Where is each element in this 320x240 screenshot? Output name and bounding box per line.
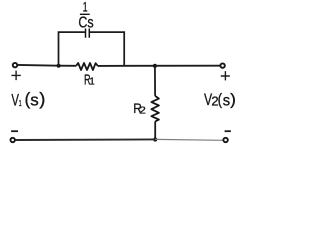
plus sign right <box>221 71 230 80</box>
terminal left bottom <box>11 138 15 142</box>
terminal right top <box>220 63 224 67</box>
node junction R2 top <box>153 64 157 68</box>
label V2(s) <box>204 91 236 110</box>
plus sign left <box>11 71 20 81</box>
svg-text:Cs: Cs <box>78 14 93 32</box>
resistor R1 <box>76 63 98 70</box>
minus sign left <box>11 130 18 132</box>
svg-text:2: 2 <box>139 105 146 116</box>
node junction left <box>57 64 61 68</box>
svg-text:s: s <box>30 91 39 110</box>
terminal right bottom <box>223 138 227 142</box>
label V1(s) <box>11 89 45 110</box>
svg-text:): ) <box>39 89 45 109</box>
minus sign right <box>225 130 231 132</box>
wire capacitor loop <box>59 32 125 66</box>
resistor R2 <box>151 96 159 122</box>
capacitor C plates <box>86 29 90 38</box>
wire bottom right <box>155 138 223 141</box>
node junction bottom <box>153 137 157 141</box>
label R1 <box>84 71 95 88</box>
wire bottom left <box>16 138 156 141</box>
svg-text:1: 1 <box>89 76 95 87</box>
wire R2 branch top lead <box>154 66 156 96</box>
svg-text:(: ( <box>218 92 223 109</box>
wire R2 branch bottom lead <box>154 121 156 139</box>
label 1/Cs fraction <box>78 0 93 32</box>
svg-text:1: 1 <box>19 98 22 109</box>
wire main horizontal <box>18 65 220 66</box>
label R2 <box>133 100 146 116</box>
svg-text:): ) <box>230 91 236 108</box>
terminal left top <box>13 63 17 67</box>
